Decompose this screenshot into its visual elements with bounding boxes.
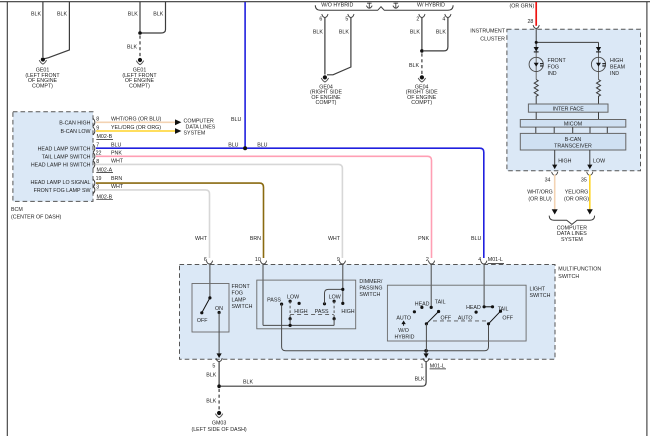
- svg-text:OFF: OFF: [502, 315, 513, 321]
- svg-text:35: 35: [581, 177, 587, 183]
- bracket brace: [315, 5, 453, 10]
- svg-text:W/O: W/O: [398, 328, 409, 334]
- svg-text:B-CAN HIGH: B-CAN HIGH: [59, 120, 90, 126]
- svg-text:(OR GRN): (OR GRN): [510, 3, 535, 9]
- wire PNK tail lamp switch: [96, 156, 432, 258]
- svg-text:4: 4: [478, 257, 481, 263]
- dimmer right lever dashed: [333, 301, 335, 319]
- svg-text:5: 5: [345, 16, 348, 22]
- wire BLK dashed: [421, 53, 423, 74]
- dimmer mechanical link: [290, 313, 334, 315]
- svg-text:BLK: BLK: [206, 373, 216, 379]
- dimmer right lever lower: [333, 317, 336, 320]
- svg-text:BRN: BRN: [250, 236, 261, 242]
- light switch left lever: [425, 310, 452, 326]
- svg-text:BLK: BLK: [57, 12, 67, 18]
- svg-text:DIMMER/: DIMMER/: [359, 279, 382, 285]
- svg-text:PNK: PNK: [111, 150, 122, 156]
- svg-text:10: 10: [255, 257, 261, 263]
- wire YEL/ORG (OR ORG) b-can low: [96, 130, 175, 132]
- svg-text:PASSING: PASSING: [359, 285, 382, 291]
- svg-text:BRN: BRN: [111, 176, 122, 182]
- svg-text:W/ HYBRID: W/ HYBRID: [417, 2, 445, 8]
- svg-text:28: 28: [527, 19, 533, 25]
- light switch left AUTO contact: [413, 310, 416, 313]
- wire BLU vertical from top: [244, 2, 246, 148]
- dimmer/passing switch box: [257, 279, 383, 329]
- instrument cluster box: [470, 29, 640, 171]
- svg-text:BLK: BLK: [409, 63, 419, 69]
- svg-text:4: 4: [442, 16, 445, 22]
- svg-text:6: 6: [204, 257, 207, 263]
- pin 6 connector: [206, 261, 212, 264]
- svg-text:TAIL LAMP SWITCH: TAIL LAMP SWITCH: [42, 154, 91, 160]
- svg-text:HEAD: HEAD: [415, 301, 430, 307]
- wire BLK pin 4: [424, 17, 448, 51]
- label COMPUTER DATA LINES SYSTEM: [184, 119, 216, 137]
- wire BLK pin 5: [327, 17, 351, 74]
- svg-text:WHT/ORG: WHT/ORG: [527, 190, 553, 196]
- svg-text:HEAD LAMP SWITCH: HEAD LAMP SWITCH: [38, 146, 91, 152]
- wire pin 10 into dimmer: [262, 264, 264, 325]
- svg-text:5: 5: [212, 363, 215, 369]
- wire BLU head lamp switch: [96, 148, 484, 258]
- dimmer right LOW contact: [333, 300, 336, 303]
- wire BLK pin 5 down: [218, 362, 220, 386]
- pin 35 connector: [587, 172, 593, 175]
- wire BLK to GE01 (a) right: [44, 2, 69, 59]
- svg-text:WHT/ORG (OR BLU): WHT/ORG (OR BLU): [111, 116, 162, 122]
- wire HIGH: [554, 150, 556, 168]
- svg-text:FRONT FOG LAMP SW: FRONT FOG LAMP SW: [34, 188, 91, 194]
- anchor symbol right: [393, 3, 399, 9]
- svg-text:HIGH: HIGH: [610, 58, 623, 64]
- svg-text:YEL/ORG: YEL/ORG: [565, 190, 589, 196]
- w/o hybrid pointer: [394, 321, 414, 341]
- wire LOW: [589, 150, 591, 168]
- svg-text:BLU: BLU: [228, 142, 238, 148]
- svg-text:SWITCH: SWITCH: [530, 293, 551, 299]
- wire BLK pin 1 down and left: [221, 362, 426, 386]
- svg-text:FOG: FOG: [232, 291, 243, 297]
- svg-text:(OR ORG): (OR ORG): [564, 197, 589, 203]
- wire WHT head lamp hi switch: [96, 164, 342, 258]
- arrow down low: [587, 165, 592, 170]
- pin 10 connector: [260, 261, 266, 264]
- node ground junction: [217, 384, 221, 388]
- fog switch lever: [197, 296, 223, 324]
- wire BLK to GE01 (b) left: [139, 2, 141, 33]
- svg-text:BLK: BLK: [313, 29, 323, 35]
- svg-text:HIGH: HIGH: [341, 309, 354, 315]
- connector label M02-B: [96, 134, 113, 140]
- light switch right lever: [487, 310, 514, 326]
- svg-text:(CENTER OF DASH): (CENTER OF DASH): [11, 215, 62, 221]
- svg-text:SWITCH: SWITCH: [558, 274, 579, 280]
- svg-text:BCM: BCM: [11, 207, 23, 213]
- indicator bulb FRONT FOG IND: [529, 52, 566, 80]
- dimmer left LOW contact: [289, 300, 292, 303]
- BCM row labels: [31, 120, 91, 194]
- connector label M02-A: [96, 167, 113, 173]
- connector label M02-B: [96, 194, 113, 200]
- BCM pin brackets: [93, 118, 95, 194]
- svg-text:2: 2: [426, 257, 429, 263]
- wire WHT/ORG (OR BLU) b-can high: [96, 121, 175, 123]
- svg-text:1: 1: [420, 364, 423, 370]
- node branch: [535, 41, 538, 44]
- wire PASS down and right: [282, 304, 489, 351]
- light switch right AUTO contact: [475, 311, 478, 314]
- svg-text:HEAD LAMP HI SWITCH: HEAD LAMP HI SWITCH: [31, 163, 91, 169]
- svg-text:COMPT): COMPT): [129, 84, 150, 90]
- wire pin 4 into light switch: [483, 264, 485, 307]
- arrow to data lines: [175, 128, 181, 134]
- wire left lever down: [425, 324, 427, 351]
- indicator bulb HIGH BEAM IND: [591, 52, 625, 80]
- svg-text:COMPT): COMPT): [411, 100, 432, 106]
- pin 28 connector: [533, 25, 539, 28]
- pin 2 connector: [419, 14, 425, 17]
- pin 34 connector: [552, 172, 558, 175]
- pin 4 connector: [445, 14, 451, 17]
- svg-text:BLK: BLK: [410, 29, 420, 35]
- wire RED (OR GRN) from top: [535, 2, 537, 26]
- svg-text:BLU: BLU: [471, 236, 481, 242]
- pin 5 connector: [348, 14, 354, 17]
- svg-text:SWITCH: SWITCH: [232, 304, 253, 310]
- light switch left HEAD contact: [420, 306, 423, 309]
- arrow down pin 5: [217, 353, 222, 358]
- front fog lamp switch box: [192, 284, 253, 333]
- svg-text:PASS: PASS: [267, 298, 281, 304]
- svg-text:BLK: BLK: [128, 12, 138, 18]
- svg-text:SYSTEM: SYSTEM: [561, 237, 583, 243]
- wire BLK dashed to GM03: [218, 389, 220, 410]
- svg-text:INTER FACE: INTER FACE: [553, 106, 585, 112]
- diode arrow right: [596, 47, 601, 52]
- wires micom to b-can: [536, 127, 608, 133]
- light switch box: [387, 285, 550, 341]
- svg-text:HEAD LAMP LO SIGNAL: HEAD LAMP LO SIGNAL: [31, 180, 91, 186]
- wire YEL/ORG (OR ORG): [589, 175, 591, 210]
- svg-text:BLK: BLK: [415, 377, 425, 383]
- svg-text:2: 2: [416, 16, 419, 22]
- dimmer left lever dashed: [289, 301, 291, 319]
- wire pin 9 into dimmer: [342, 264, 344, 303]
- svg-text:ON: ON: [215, 306, 223, 312]
- svg-text:WHT: WHT: [111, 159, 124, 165]
- pin 1 connector: [423, 358, 429, 361]
- svg-text:9: 9: [337, 257, 340, 263]
- pin 9 connector: [339, 261, 345, 264]
- node rail to pin1: [424, 349, 428, 353]
- light switch right HEAD contact: [483, 305, 486, 308]
- wires interface to micom: [536, 112, 598, 119]
- dimmer right PASS contact: [323, 302, 326, 305]
- pin 6 connector: [322, 14, 328, 17]
- wire BLK dashed: [139, 36, 141, 57]
- light switch right TAIL link: [484, 306, 492, 308]
- wire WHT/ORG (OR BLU): [554, 175, 556, 210]
- svg-text:BLU: BLU: [257, 142, 267, 148]
- svg-text:HEAD: HEAD: [466, 305, 481, 311]
- brace computer data lines: [549, 216, 594, 225]
- svg-text:(OR BLU): (OR BLU): [528, 197, 551, 203]
- svg-text:BLK: BLK: [153, 12, 163, 18]
- ground GM03: [215, 411, 222, 418]
- dimmer right branch wire: [325, 289, 343, 303]
- wire pin 2 into light switch: [430, 264, 432, 307]
- svg-text:SYSTEM: SYSTEM: [184, 131, 206, 137]
- svg-text:W/O HYBRID: W/O HYBRID: [321, 2, 353, 8]
- svg-text:CLUSTER: CLUSTER: [480, 37, 505, 43]
- svg-text:BLK: BLK: [127, 44, 137, 50]
- svg-text:GM03: GM03: [212, 421, 226, 427]
- svg-text:M01-L: M01-L: [488, 257, 503, 263]
- svg-text:TAIL: TAIL: [435, 300, 446, 306]
- block MICOM: [520, 120, 626, 128]
- svg-text:COMPT): COMPT): [316, 100, 337, 106]
- wire BLK pin 6: [324, 17, 326, 74]
- svg-text:COMPT): COMPT): [32, 84, 53, 90]
- svg-text:LIGHT: LIGHT: [530, 286, 546, 292]
- pin 2 connector: [428, 261, 434, 264]
- svg-text:AUTO: AUTO: [458, 315, 473, 321]
- svg-text:LOW: LOW: [593, 159, 605, 165]
- svg-text:(LEFT SIDE OF DASH): (LEFT SIDE OF DASH): [191, 427, 246, 433]
- svg-text:BEAM: BEAM: [610, 64, 625, 70]
- arrow end high: [552, 209, 558, 214]
- node junction: [420, 49, 424, 53]
- svg-text:PASS: PASS: [315, 309, 329, 315]
- BCM pin numbers: [96, 117, 102, 191]
- dimmer left lever lower: [289, 317, 292, 320]
- block INTER FACE: [528, 104, 608, 112]
- ground GE01 (a): [39, 57, 46, 64]
- ground GE04 (a): [321, 75, 328, 82]
- block B-CAN TRANSCEIVER: [520, 133, 626, 150]
- svg-text:BLK: BLK: [206, 398, 216, 404]
- svg-text:YEL/ORG (OR ORG): YEL/ORG (OR ORG): [111, 125, 161, 131]
- wire pin 1 down: [425, 351, 427, 358]
- diode arrow left: [534, 47, 539, 52]
- svg-text:IND: IND: [610, 71, 619, 77]
- svg-text:WHT: WHT: [111, 184, 124, 190]
- pin 5 connector: [216, 358, 222, 361]
- node pin9 junction: [341, 288, 344, 291]
- svg-text:34: 34: [545, 177, 551, 183]
- arrow to data lines: [175, 119, 181, 125]
- svg-text:BLU: BLU: [231, 117, 241, 123]
- svg-text:SWITCH: SWITCH: [359, 292, 380, 298]
- wire BLK to GE01 (a) left: [42, 2, 44, 57]
- wire to lamp branches: [536, 28, 598, 47]
- node rail junction: [289, 324, 292, 327]
- wire fog ON down: [218, 313, 220, 358]
- svg-text:HYBRID: HYBRID: [394, 335, 414, 341]
- wire pin 6 to fog switch: [209, 264, 211, 298]
- svg-text:FRONT: FRONT: [548, 58, 567, 64]
- svg-text:INSTRUMENT: INSTRUMENT: [470, 29, 505, 35]
- svg-text:BLK: BLK: [31, 12, 41, 18]
- svg-text:BLK: BLK: [339, 29, 349, 35]
- svg-text:HIGH: HIGH: [558, 159, 571, 165]
- svg-text:LOW: LOW: [287, 295, 299, 301]
- light switch left TAIL contact: [430, 306, 433, 309]
- svg-text:OFF: OFF: [197, 318, 208, 324]
- arrow down high: [552, 165, 557, 170]
- dimmer right HIGH contact: [341, 302, 344, 305]
- node BLU junction: [243, 146, 247, 150]
- svg-text:B-CAN LOW: B-CAN LOW: [60, 129, 90, 135]
- ground GE04 (b): [418, 75, 425, 82]
- resistor left: [534, 80, 538, 105]
- arrow end low: [587, 209, 593, 214]
- svg-text:B-CAN: B-CAN: [565, 137, 582, 143]
- svg-text:BLK: BLK: [243, 380, 253, 386]
- ground GE01 (b): [136, 58, 143, 65]
- wire BLK to GE01 (b) right: [141, 2, 166, 33]
- dimmer left PASS contact: [280, 303, 283, 306]
- svg-text:AUTO: AUTO: [396, 315, 411, 321]
- svg-text:LOW: LOW: [329, 295, 341, 301]
- svg-text:19: 19: [96, 176, 102, 182]
- multifunction switch box: [180, 265, 602, 360]
- svg-text:BLK: BLK: [436, 29, 446, 35]
- node junction: [138, 31, 142, 35]
- connector label M01-L: [488, 257, 504, 263]
- svg-text:TRANSCEIVER: TRANSCEIVER: [554, 144, 592, 150]
- svg-text:WHT: WHT: [195, 236, 208, 242]
- arrow down pin 1: [424, 353, 429, 358]
- anchor symbol left: [366, 3, 372, 9]
- svg-text:LAMP: LAMP: [232, 297, 247, 303]
- svg-text:BLU: BLU: [111, 142, 121, 148]
- wire BLK pin 2: [421, 17, 423, 51]
- dimmer rail: [263, 324, 334, 326]
- wire BRN head lamp lo signal: [96, 183, 264, 258]
- svg-text:MULTIFUNCTION: MULTIFUNCTION: [558, 266, 601, 272]
- svg-text:PNK: PNK: [418, 236, 429, 242]
- mechanical link light switch: [433, 320, 487, 322]
- svg-text:IND: IND: [548, 71, 557, 77]
- pin 4 connector: [481, 261, 487, 264]
- svg-text:MICOM: MICOM: [564, 122, 582, 128]
- svg-text:FOG: FOG: [548, 64, 559, 70]
- svg-text:FRONT: FRONT: [232, 284, 251, 290]
- dimmer left HIGH contact: [298, 302, 301, 305]
- BCM box: [11, 112, 93, 221]
- resistor right: [597, 80, 601, 105]
- svg-text:6: 6: [319, 16, 322, 22]
- connector label M01-L: [430, 364, 446, 370]
- svg-text:WHT: WHT: [328, 236, 341, 242]
- wire WHT front fog lamp sw: [96, 190, 210, 258]
